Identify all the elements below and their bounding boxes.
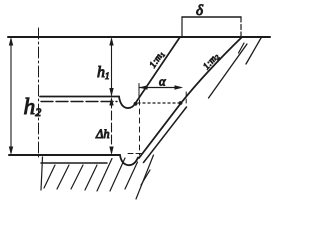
canal bottom line [9,154,120,156]
svg-text:Δh: Δh [95,127,110,141]
dimension line h1 [109,37,113,97]
extension tick below alpha line [138,84,140,100]
svg-text:h1: h1 [97,64,110,81]
intermediate water level line (lower) [41,101,117,103]
centerline (dash-dot axis) [38,28,40,157]
outer slope 1:m2 [139,37,242,158]
companion slope line [144,107,187,163]
svg-text:α: α [159,75,166,89]
dimension line h2 [9,37,13,155]
dimension line a (alpha) [139,85,183,89]
inner slope 1:m1 [135,37,181,105]
hatch stroke 8 [125,162,138,189]
svg-text:1:m2: 1:m2 [202,51,222,72]
hatch stroke 3 [57,165,69,189]
right bank hatch stroke H1 [209,44,248,98]
extension tick at right end of dimension a [185,92,187,104]
hatch stroke 1 [41,157,43,190]
hatch stroke 10 (under slope foot) [141,170,150,185]
node: notch to slope junction [134,102,138,106]
intermediate water level line (upper) [40,96,119,98]
svg-text:h2: h2 [24,94,42,120]
right bank hatch stroke H2 (short) [239,43,245,53]
dashed level mark across notch [128,153,141,155]
node: berm to outer slope junction [179,101,183,105]
hatch stroke 4 [71,165,83,189]
dimension line delta-h [109,97,113,155]
label 1:m2 [202,51,222,72]
hatch stroke 6 [97,159,112,192]
label 1:m1 [148,50,167,71]
svg-text:δ: δ [196,3,204,19]
hatch stroke 5 [85,165,97,190]
dimension delta bracket [182,17,241,38]
vertical dashed projection line [139,100,141,155]
hatch stroke 9 (under slope foot) [136,155,154,199]
canal bottom second line [41,162,107,164]
bottom bed notch [120,155,138,165]
hatch stroke 7 [110,158,125,191]
dotted berm line [138,102,179,104]
ground surface line [8,36,270,38]
hatch stroke 2 [44,165,55,188]
right bank hatch stroke H3 [246,38,261,64]
intermediate bed notch [119,97,135,109]
